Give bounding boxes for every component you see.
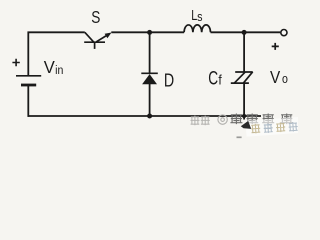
small gray tick bbox=[237, 136, 242, 138]
node junction top of diode bbox=[147, 30, 152, 35]
svg-text:f: f bbox=[218, 72, 222, 88]
label Vin bbox=[44, 56, 64, 77]
wire diode bottom bbox=[149, 84, 151, 116]
label S bbox=[91, 9, 100, 28]
inductor Ls bbox=[184, 25, 210, 32]
node junction bottom of capacitor bbox=[242, 114, 246, 118]
wire diode top bbox=[149, 32, 151, 73]
wire top rail middle segment bbox=[111, 31, 184, 33]
label Ls bbox=[191, 6, 202, 24]
wire top rail right segment bbox=[211, 31, 281, 33]
svg-text:in: in bbox=[55, 64, 63, 77]
cursor blob bbox=[241, 121, 251, 129]
node junction top of capacitor bbox=[242, 30, 247, 35]
wire top rail left segment bbox=[28, 31, 85, 33]
battery Vin bbox=[16, 76, 41, 85]
capacitor Cf bbox=[231, 72, 253, 83]
plus sign output bbox=[272, 43, 279, 50]
svg-text:V: V bbox=[270, 67, 281, 87]
wire bottom rail bbox=[28, 115, 262, 117]
svg-text:V: V bbox=[44, 56, 55, 77]
wire left rail lower bbox=[27, 85, 29, 117]
svg-text:D: D bbox=[164, 71, 174, 91]
diode D bbox=[141, 73, 158, 84]
switch S bbox=[84, 32, 106, 49]
watermark gray: 知乎 @name bbox=[191, 114, 293, 126]
label Vo bbox=[270, 67, 288, 87]
plus sign battery bbox=[12, 59, 19, 66]
wire left rail upper bbox=[27, 32, 29, 76]
output terminal circle bbox=[281, 29, 287, 35]
label D bbox=[164, 71, 174, 91]
wire capacitor bottom bbox=[243, 83, 245, 119]
svg-text:S: S bbox=[91, 9, 100, 28]
label Cf bbox=[208, 67, 222, 89]
switch arrowhead bbox=[105, 33, 112, 39]
svg-text:o: o bbox=[282, 72, 288, 86]
svg-text:C: C bbox=[208, 67, 218, 89]
watermark colored lower row bbox=[245, 117, 299, 137]
node junction bottom of diode bbox=[147, 114, 152, 119]
wire capacitor top bbox=[243, 32, 245, 72]
svg-text:s: s bbox=[197, 9, 202, 24]
